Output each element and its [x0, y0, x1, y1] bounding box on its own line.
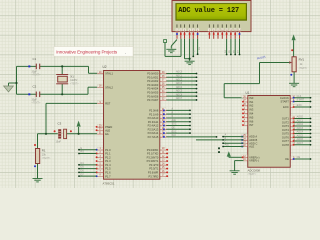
- pin OUT6 (15) U1: [290, 136, 294, 138]
- wire end: [310, 144, 312, 146]
- wire : RW: [192, 39, 194, 57]
- pin P3.0/RXD (10) U2: [160, 149, 167, 151]
- wire end: [196, 73, 198, 75]
- svg-text:IN2: IN2: [249, 104, 254, 108]
- pin E (6) LCD1: [196, 24, 199, 27]
- ground (LCD): [185, 61, 195, 64]
- junction: [78, 133, 80, 135]
- wire : C2 to crystal bottom: [40, 93, 62, 95]
- svg-text:P2.6/A14: P2.6/A14: [148, 131, 159, 135]
- svg-text:P1.3: P1.3: [105, 159, 111, 163]
- pin P2.1/A9 (22) U2: [160, 113, 167, 115]
- svg-text:ADC5: ADC5: [176, 90, 183, 93]
- ground (R1): [33, 179, 43, 182]
- svg-text:ALE: ALE: [172, 119, 177, 122]
- wire : wiper: [260, 62, 290, 64]
- pin ADD C (23) U1: [244, 142, 248, 144]
- wire end: [189, 110, 191, 112]
- wire : net ADC7: [294, 144, 310, 146]
- wire : LCD D7: [239, 39, 241, 55]
- pin P0.0/AD0 (39) U2: [160, 73, 167, 75]
- pin state dot: [290, 74, 292, 76]
- svg-text:P2.0/A8: P2.0/A8: [149, 109, 159, 113]
- pin marker: [54, 130, 56, 132]
- wire end: [189, 132, 191, 134]
- wire end: [310, 140, 312, 142]
- pin state dot P3.0: [166, 149, 168, 151]
- pin state dot OUT7: [293, 140, 295, 142]
- pin state dot P2.4: [163, 125, 165, 127]
- wire end: [78, 175, 80, 177]
- pin D6 (13) LCD1: [234, 24, 237, 27]
- svg-text:OUT5: OUT5: [282, 132, 289, 136]
- svg-text:OE: OE: [172, 128, 176, 130]
- pin START (6) U1: [290, 101, 294, 103]
- svg-text:P0.7/AD7: P0.7/AD7: [147, 98, 159, 102]
- wire end mark: [218, 151, 220, 153]
- wire end: [189, 117, 191, 119]
- op-amp U2 body (AT89C51 microcontroller): [104, 71, 160, 180]
- wire : net D4 to P1.4: [79, 164, 96, 166]
- pin XTAL2 (18) U2: [97, 86, 103, 88]
- wire : C3 to EA pin: [67, 133, 97, 135]
- pin P0.6/AD6 (33) U2: [160, 95, 167, 97]
- svg-text:ADC2: ADC2: [297, 123, 304, 126]
- pin state dot ALE: [96, 129, 98, 131]
- svg-text:EOC: EOC: [297, 105, 302, 107]
- svg-text:ADC4: ADC4: [176, 86, 183, 89]
- svg-text:P0.4/AD4: P0.4/AD4: [147, 87, 159, 91]
- pin RS (4) LCD1: [188, 24, 191, 27]
- svg-text:OUT2: OUT2: [282, 120, 289, 124]
- pin ADD A (25) U1: [244, 136, 248, 138]
- pin state dot VEE: [184, 33, 186, 35]
- pin state dot E: [197, 33, 199, 35]
- pin state dot D4: [226, 33, 228, 35]
- wire : net ADC5: [294, 136, 310, 138]
- svg-text:OUT1: OUT1: [282, 117, 289, 121]
- pin EOC (7) U1: [290, 106, 294, 108]
- wire : net ADC0: [294, 118, 310, 120]
- svg-text:<TEXT>: <TEXT>: [248, 173, 257, 176]
- svg-text:P3.5/T1: P3.5/T1: [149, 167, 159, 171]
- svg-text:P1.7: P1.7: [105, 174, 111, 178]
- pin state dot RW: [192, 33, 194, 35]
- pin state dot D1: [213, 33, 215, 35]
- wire : to ADC IN0: [224, 97, 243, 99]
- wire end: [78, 164, 80, 166]
- svg-text:P2.1/A9: P2.1/A9: [149, 112, 159, 116]
- svg-text:ADC0808: ADC0808: [248, 169, 261, 173]
- pin IN7 (5) U1: [244, 124, 248, 126]
- pin P3.4/T0 (14) U2: [160, 164, 167, 166]
- wire : RS column: [189, 39, 191, 61]
- pin D5 (12) LCD1: [229, 24, 232, 27]
- svg-text:IN0: IN0: [249, 96, 254, 100]
- pin P1.4 (5) U2: [97, 164, 103, 166]
- pin state dot D3: [221, 33, 223, 35]
- svg-text:<TEXT>: <TEXT>: [42, 157, 51, 160]
- svg-text:<TEXT>: <TEXT>: [70, 83, 79, 86]
- pin marker: [34, 144, 36, 146]
- pin state dot OE: [293, 158, 295, 160]
- junction: [189, 58, 191, 60]
- pin state dot IN3: [242, 109, 244, 111]
- wire : net C to ADC: [223, 142, 243, 144]
- pin P1.0 (1) U2: [97, 149, 103, 151]
- svg-text:ADC0: ADC0: [297, 116, 304, 119]
- pin state dot VREF+: [242, 156, 244, 158]
- svg-text:P3.6/WR: P3.6/WR: [148, 170, 159, 174]
- wire: [185, 58, 190, 60]
- svg-text:ALE: ALE: [225, 144, 230, 147]
- pin P3.2/INT0 (12) U2: [160, 156, 167, 158]
- wire end: [216, 136, 218, 138]
- svg-text:P2.5/A13: P2.5/A13: [148, 127, 159, 131]
- pin P3.1/TXD (11) U2: [160, 152, 167, 154]
- pin P2.6/A14 (27) U2: [160, 132, 167, 134]
- wire end: [222, 139, 224, 141]
- pin state dot CLOCK: [293, 97, 295, 99]
- ground (LCD VSS): [166, 49, 176, 52]
- ground (RV1): [289, 83, 299, 86]
- wire end: [222, 136, 224, 138]
- pin OUT7 (14) U1: [290, 140, 294, 142]
- svg-text:OE: OE: [297, 157, 301, 159]
- pin D0 (7) LCD1: [208, 24, 211, 27]
- svg-text:P1.1: P1.1: [105, 152, 111, 156]
- svg-text:P0.2/AD2: P0.2/AD2: [147, 79, 159, 83]
- pin state dot P3.5: [166, 168, 168, 170]
- wire : net OE: [294, 158, 310, 160]
- svg-text:CLOCK: CLOCK: [280, 96, 289, 100]
- wire : net ADC4 from P0.4: [167, 88, 197, 90]
- LCD1 module body: [172, 1, 251, 32]
- svg-text:EA: EA: [105, 132, 109, 136]
- pin state dot OUT6: [293, 136, 295, 138]
- pin OUT3 (19) U1: [290, 125, 294, 127]
- wire : LCD D6: [234, 39, 236, 55]
- svg-text:U1: U1: [246, 91, 250, 95]
- wire : net ADC5 from P0.5: [167, 91, 197, 93]
- svg-text:IN1: IN1: [249, 100, 254, 104]
- pin ADD B (24) U1: [244, 139, 248, 141]
- svg-text:RST: RST: [105, 102, 111, 106]
- pin marker: [70, 130, 72, 132]
- svg-text:P2.7/A15: P2.7/A15: [148, 135, 159, 139]
- pin state dot IN5: [242, 116, 244, 118]
- svg-text:P1.6: P1.6: [105, 170, 111, 174]
- wire end: [310, 133, 312, 135]
- wire: [234, 161, 236, 171]
- wire : net OE from P2.5: [167, 128, 191, 130]
- pin state dot VSS: [176, 33, 178, 35]
- pin state dot IN7: [242, 124, 244, 126]
- svg-text:C3: C3: [58, 122, 62, 126]
- svg-text:ADC1: ADC1: [297, 119, 304, 122]
- svg-text:EOC: EOC: [283, 105, 289, 109]
- pin marker: [28, 93, 30, 95]
- svg-text:OUT8: OUT8: [282, 143, 289, 147]
- svg-text:P0.5/AD5: P0.5/AD5: [147, 91, 159, 95]
- wire end: [222, 146, 224, 148]
- svg-text:CLK: CLK: [297, 96, 302, 98]
- pin state dot D2: [217, 33, 219, 35]
- wire end: [310, 97, 312, 99]
- svg-text:SOC: SOC: [172, 124, 177, 126]
- wire : net START: [294, 101, 310, 103]
- pin P1.2 (3) U2: [97, 156, 103, 158]
- svg-text:ADC6: ADC6: [297, 138, 304, 141]
- +5V power: [292, 34, 296, 40]
- wire : net SOC from P2.4: [167, 125, 191, 127]
- pin P0.4/AD4 (35) U2: [160, 88, 167, 90]
- wire : net B from P2.1: [167, 113, 191, 115]
- svg-text:Innovative Engineering Project: Innovative Engineering Projects: [56, 49, 118, 54]
- wire end: [226, 54, 228, 56]
- pin OUT5 (8) U1: [290, 133, 294, 135]
- wire end: [310, 118, 312, 120]
- svg-text:RS: RS: [199, 46, 201, 50]
- pin RW (5) LCD1: [192, 24, 195, 27]
- svg-text:ADC3: ADC3: [297, 127, 304, 130]
- pin state dot P1.5: [96, 168, 98, 170]
- wire end: [230, 54, 232, 56]
- svg-text:IN6: IN6: [249, 119, 254, 123]
- pin state dot P3.7: [166, 175, 168, 177]
- pin P3.6/WR (16) U2: [160, 171, 167, 173]
- pin state dot ADD ALE: [241, 146, 243, 148]
- pin state dot IN1: [242, 101, 244, 103]
- wire: [259, 63, 261, 84]
- +5V power: [77, 121, 81, 127]
- svg-text:OE: OE: [285, 157, 289, 161]
- wire end: [196, 99, 198, 101]
- svg-text:ADC6: ADC6: [176, 93, 183, 96]
- wire : net ALE from P2.3: [167, 121, 191, 123]
- title box Innovative Engineering Projects: [54, 47, 133, 57]
- +5V power terminal (reset): [78, 127, 80, 134]
- wire : net ADC3 from P0.3: [167, 84, 197, 86]
- pin state dot VDD: [180, 33, 182, 35]
- pin state dot P2.2: [163, 117, 165, 119]
- pin state dot P2.0: [163, 110, 165, 112]
- pin P0.2/AD2 (37) U2: [160, 80, 167, 82]
- wire end: [222, 142, 224, 144]
- pin D4 (11) LCD1: [225, 24, 228, 27]
- pin D7 (14) LCD1: [238, 24, 241, 27]
- svg-text:P2.4/A12: P2.4/A12: [148, 124, 159, 128]
- pin VREF(-) (16) U1: [244, 160, 248, 162]
- pin state dot RS: [189, 33, 191, 35]
- pin state dot P2.7: [163, 136, 165, 138]
- pin state dot P1.4: [96, 164, 98, 166]
- svg-text:ADC1: ADC1: [176, 74, 183, 77]
- svg-text:P1.4: P1.4: [105, 163, 111, 167]
- pin state dot P1.7: [96, 175, 98, 177]
- wire end: [196, 80, 198, 82]
- wire : C1 to crystal top: [40, 65, 62, 67]
- svg-text:EOC: EOC: [172, 131, 177, 133]
- pin state dot IN2: [242, 105, 244, 107]
- wire : net ADC2 from P0.2: [167, 80, 197, 82]
- wire end: [78, 171, 80, 173]
- svg-text:.: .: [125, 50, 126, 55]
- pin P1.7 (8) U2: [97, 175, 103, 177]
- pin VEE (3) LCD1: [183, 24, 186, 27]
- pin state dot EOC: [293, 106, 295, 108]
- pin state dot OUT1: [293, 118, 295, 120]
- pin state dot P1.0: [96, 149, 98, 151]
- pin state dot D7: [239, 33, 241, 35]
- pin RST (9) U2: [97, 102, 103, 104]
- wire: [88, 66, 90, 73]
- capacitor C3 (electrolytic): [58, 129, 61, 138]
- wire : net EOC from P2.6: [167, 132, 191, 134]
- wire end: [78, 168, 80, 170]
- wire : oscillator left vertical: [16, 66, 18, 94]
- svg-text:PSEN: PSEN: [105, 125, 112, 129]
- wire: [87, 87, 89, 94]
- wire end: [196, 76, 198, 78]
- pin P2.5/A13 (26) U2: [160, 128, 167, 130]
- pin ALE (22) U1: [244, 146, 248, 148]
- svg-text:AT89C51: AT89C51: [103, 181, 115, 185]
- svg-text:OUT6: OUT6: [282, 135, 289, 139]
- junction: [15, 82, 17, 84]
- wire : net D5 to P1.5: [79, 168, 96, 170]
- svg-text:OUT7: OUT7: [282, 139, 289, 143]
- svg-text:P0.3/AD3: P0.3/AD3: [147, 83, 159, 87]
- pin state dot START: [293, 101, 295, 103]
- wire to XTAL1: [89, 72, 98, 74]
- pin P2.0/A8 (21) U2: [160, 109, 167, 111]
- wire end: [310, 121, 312, 123]
- wire end: [310, 101, 312, 103]
- pin P0.5/AD5 (34) U2: [160, 91, 167, 93]
- potentiometer RV1: [292, 57, 296, 72]
- svg-text:VREF(-): VREF(-): [249, 159, 259, 163]
- wire: [223, 84, 225, 98]
- svg-text:ADC5: ADC5: [297, 134, 304, 137]
- crystal X1: [61, 66, 63, 74]
- capacitor C1: [36, 64, 39, 70]
- wire: [224, 83, 259, 85]
- svg-text:P0.6/AD6: P0.6/AD6: [147, 94, 159, 98]
- pin state dot ADD C: [241, 142, 243, 144]
- wire end: [189, 125, 191, 127]
- wire: [165, 55, 181, 57]
- pin state dot D0: [208, 33, 210, 35]
- pin state dot OUT4: [293, 129, 295, 131]
- wire : net ADC3: [294, 129, 310, 131]
- wire : net ADC1 from P0.1: [167, 76, 197, 78]
- pin state dot D6: [234, 33, 236, 35]
- wire end: [310, 136, 312, 138]
- wire to XTAL2: [88, 86, 97, 88]
- pin P0.1/AD1 (38) U2: [160, 76, 167, 78]
- pin state dot P1.3: [96, 160, 98, 162]
- wire : net ADC0 from P0.0: [167, 73, 197, 75]
- ground (oscillator): [8, 83, 10, 86]
- svg-text:IN4: IN4: [249, 111, 254, 115]
- wire: [164, 43, 166, 57]
- svg-text:P1.0: P1.0: [105, 148, 111, 152]
- pin EA (31) U2: [97, 133, 103, 135]
- pin state dot P2.1: [163, 113, 165, 115]
- svg-text:X1: X1: [70, 75, 74, 79]
- pin D3 (10) LCD1: [221, 24, 224, 27]
- wire end: [310, 106, 312, 108]
- pin ALE (30) U2: [97, 129, 103, 131]
- pin D1 (8) LCD1: [212, 24, 215, 27]
- wire : ground branch: [9, 82, 17, 84]
- svg-text:<TEXT>: <TEXT>: [32, 74, 42, 77]
- svg-text:ADC7: ADC7: [176, 97, 183, 100]
- pin VSS (1) LCD1: [176, 24, 179, 27]
- pin IN3 (1) U1: [244, 108, 248, 110]
- wire : net A to ADC: [223, 136, 243, 138]
- svg-text:RS: RS: [81, 151, 85, 154]
- wire end: [189, 121, 191, 123]
- wire : net CLK from P2.7: [167, 136, 217, 138]
- pin PSEN (29) U2: [97, 126, 103, 128]
- pin state dot OUT8: [293, 144, 295, 146]
- wire end: [78, 153, 80, 155]
- wire : net ADC6 from P0.6: [167, 95, 197, 97]
- svg-text:IN3: IN3: [249, 108, 254, 112]
- svg-text:ADC value = 127: ADC value = 127: [178, 7, 239, 15]
- svg-text:START: START: [281, 100, 290, 104]
- pin OUT8 (17) U1: [290, 144, 294, 146]
- svg-text:P2.2/A10: P2.2/A10: [148, 116, 159, 120]
- wire end: [310, 125, 312, 127]
- wire end: [239, 54, 241, 56]
- pin VDD (2) LCD1: [179, 24, 182, 27]
- pin state dot P3.6: [166, 171, 168, 173]
- pin P1.1 (2) U2: [97, 152, 103, 154]
- pin P2.2/A10 (23) U2: [160, 117, 167, 119]
- wire end: [196, 95, 198, 97]
- svg-text:IN7: IN7: [249, 123, 254, 127]
- wire : LCD D5: [230, 39, 232, 55]
- svg-text:RV1: RV1: [299, 58, 305, 62]
- junction: [61, 93, 63, 95]
- power terminal (LCD VDD): [164, 40, 167, 43]
- wire end: [197, 53, 199, 55]
- wire end: [196, 84, 198, 86]
- op-amp U1 body (ADC0808): [248, 96, 291, 168]
- wire : RST down to C3 node: [45, 103, 47, 133]
- pin OUT2 (20) U1: [290, 121, 294, 123]
- pin state dot OUT2: [293, 121, 295, 123]
- svg-text:ADC2: ADC2: [176, 78, 183, 81]
- pin state dot ADD A: [241, 136, 243, 138]
- wire end: [310, 129, 312, 131]
- wire : RST net: [46, 102, 97, 104]
- svg-text:P2.3/A11: P2.3/A11: [148, 120, 159, 124]
- svg-text:XTAL2: XTAL2: [105, 85, 113, 89]
- svg-text:ALE: ALE: [249, 145, 254, 149]
- pin P0.7/AD7 (32) U2: [160, 99, 167, 101]
- wire end: [310, 158, 312, 160]
- svg-text:C2: C2: [33, 85, 37, 89]
- svg-text:OUT4: OUT4: [282, 128, 289, 132]
- svg-text:ADC4: ADC4: [297, 131, 304, 134]
- pin P2.7/A15 (28) U2: [160, 136, 167, 138]
- wire : crystal bottom to XTAL2 step: [62, 93, 88, 95]
- resistor R1: [37, 134, 39, 149]
